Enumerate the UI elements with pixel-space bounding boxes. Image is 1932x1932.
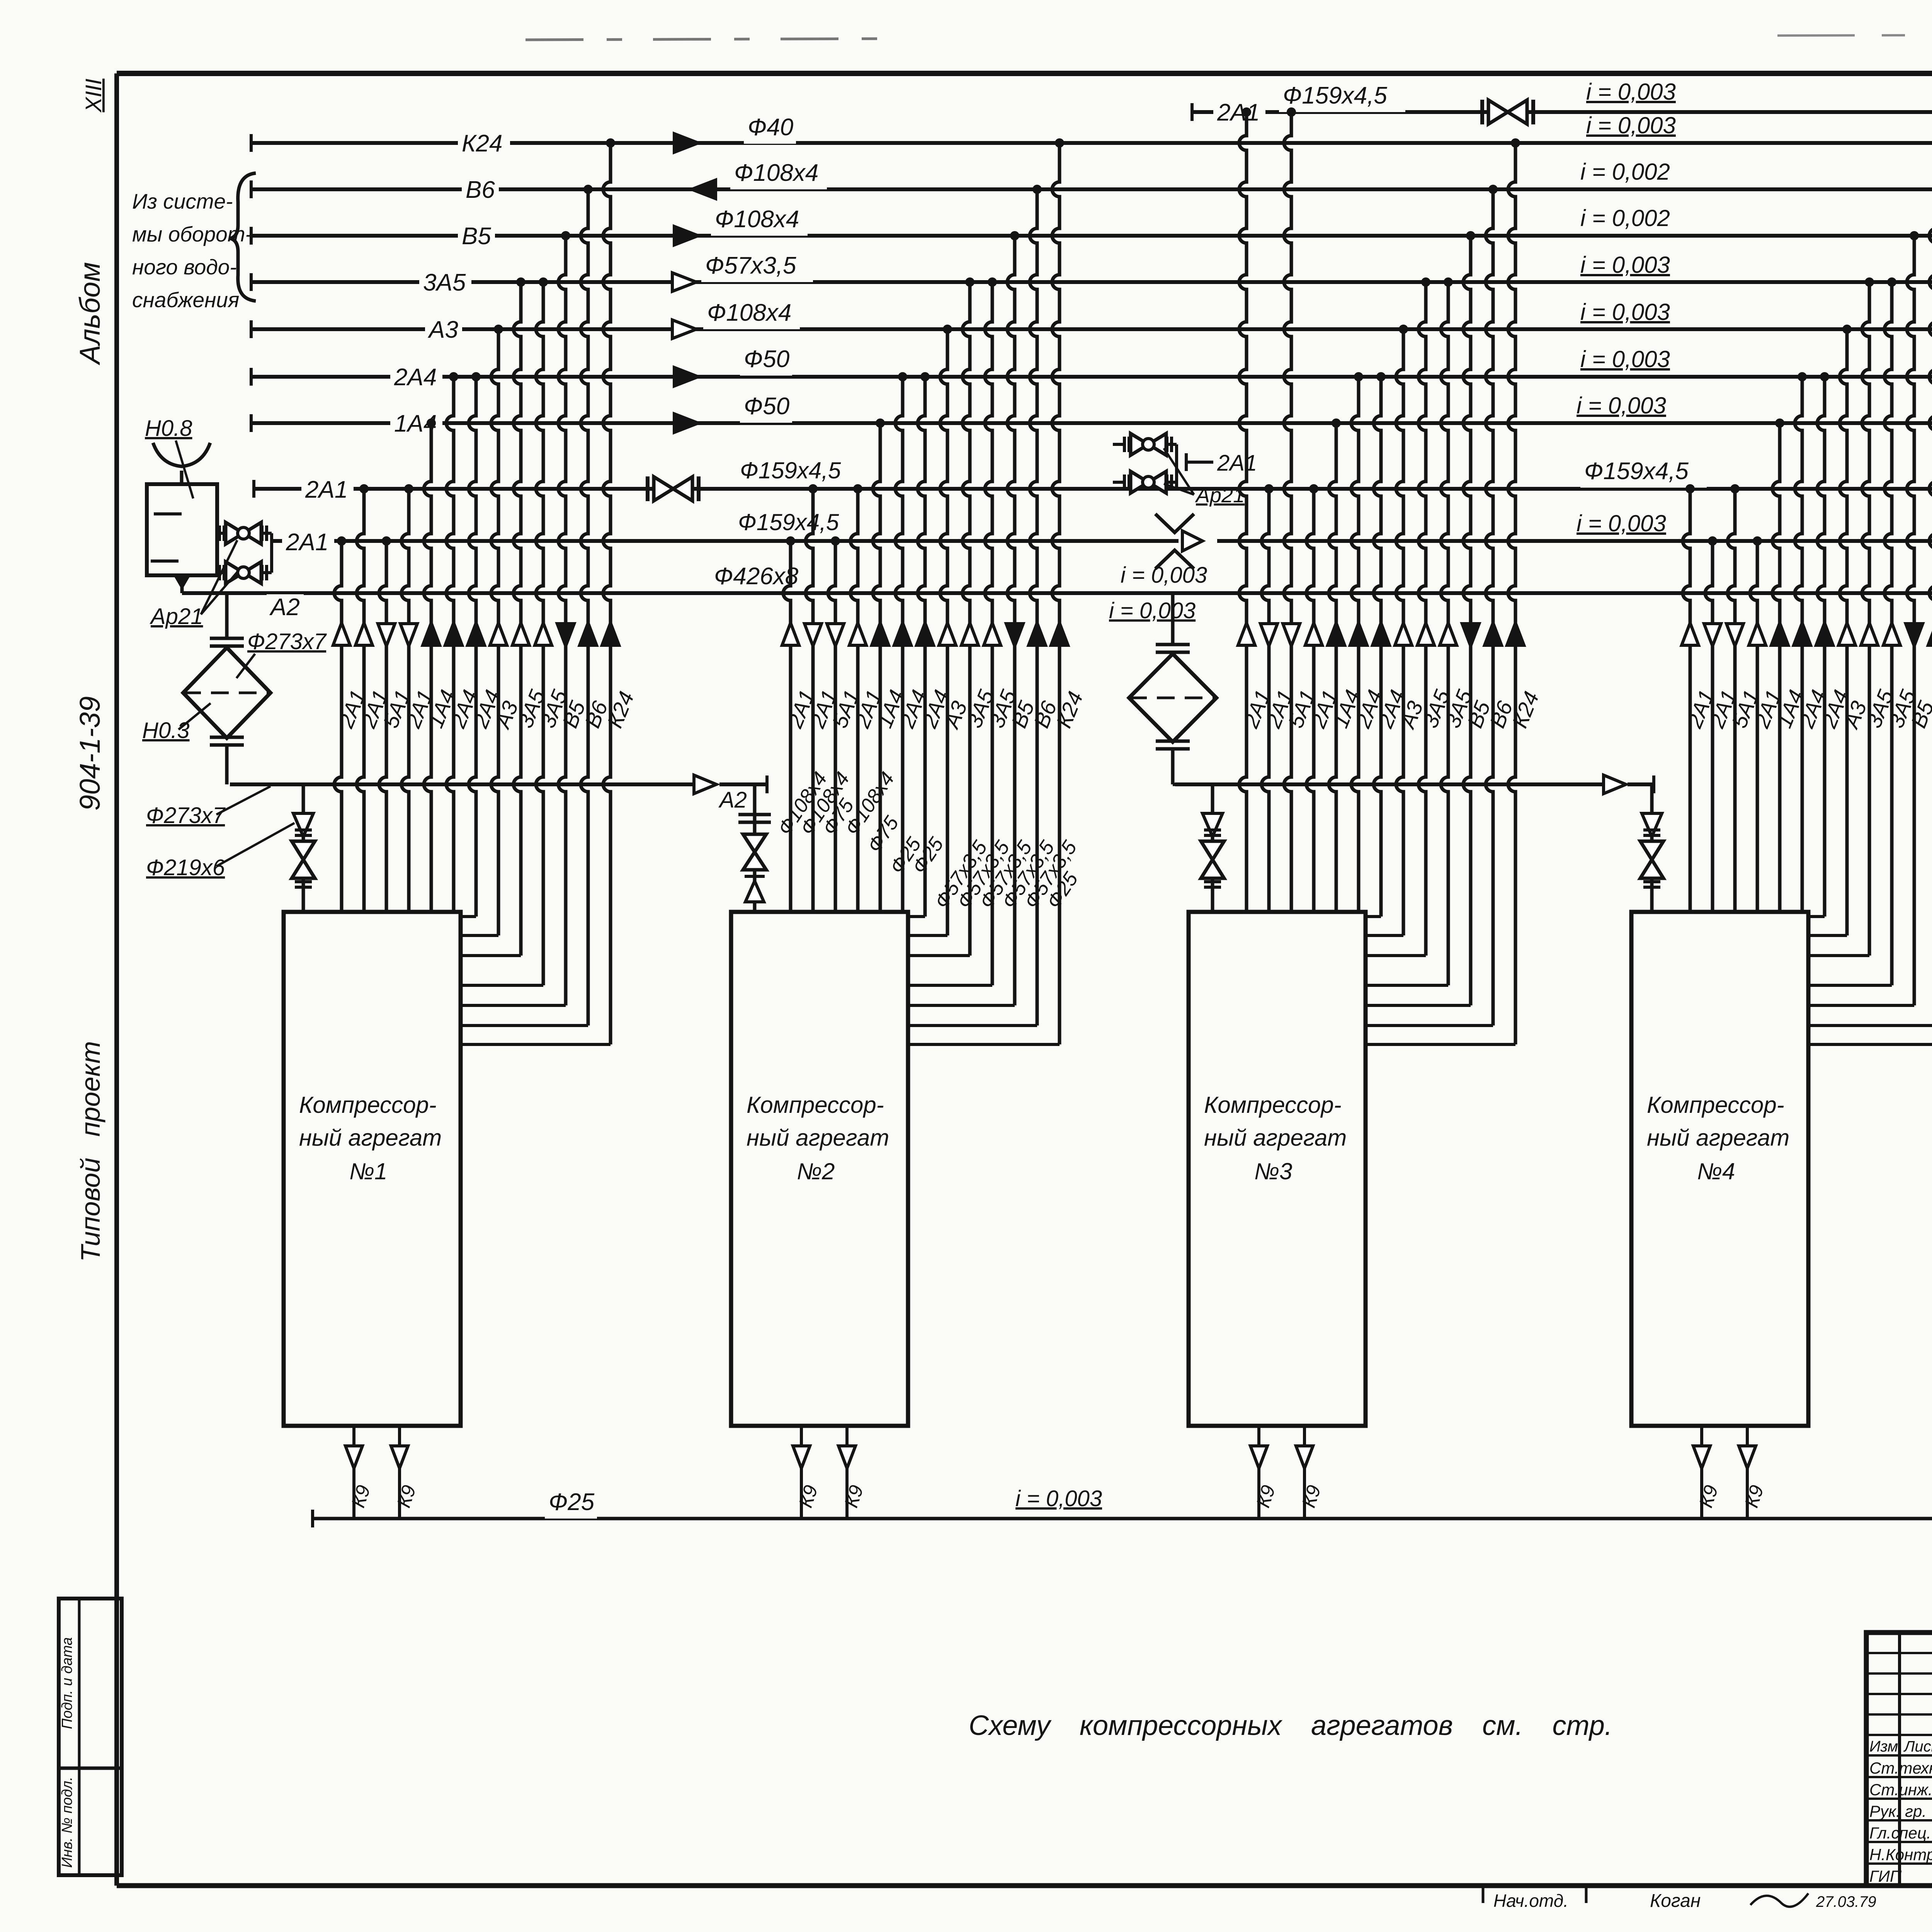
flow arrow 1А4 unit1 — [423, 623, 440, 645]
svg-text:i = 0,003: i = 0,003 — [1015, 1486, 1102, 1511]
flow arrow В6 unit3 — [1485, 623, 1502, 645]
wire В5 drop unit2 — [908, 231, 1019, 1005]
valve Ар21 unit3 upper — [1113, 434, 1172, 455]
svg-text:3А5: 3А5 — [423, 269, 466, 296]
valve Ар21 upper — [217, 522, 267, 544]
wire В6 drop unit3 — [1366, 185, 1498, 1026]
svg-text:№2: №2 — [797, 1158, 835, 1184]
wire bus V5 (Ф108х4) — [251, 227, 1932, 245]
svg-text:Подп. и дата: Подп. и дата — [59, 1637, 75, 1729]
flow arrow 3А5 unit1 — [512, 623, 529, 645]
label K24 — [458, 131, 510, 160]
flow arrow А3 unit1 — [490, 623, 507, 645]
flow arrow 5А1 unit1 — [378, 624, 395, 646]
svg-text:Ф108х4: Ф108х4 — [707, 299, 791, 326]
svg-text:А2: А2 — [718, 787, 747, 813]
svg-text:Ф50: Ф50 — [744, 346, 789, 372]
title block frame — [1866, 1633, 1932, 1886]
wire K9 drain unit4.2 — [1739, 1426, 1756, 1519]
wire 2А1 drop unit1 — [334, 536, 346, 912]
wire 1А4 drop unit1 — [424, 418, 436, 912]
svg-text:снабжения: снабжения — [132, 288, 239, 312]
flow arrow 2А4 unit1 — [468, 623, 485, 645]
svg-text:Ф159х4,5: Ф159х4,5 — [740, 457, 841, 483]
svg-text:i = 0,003: i = 0,003 — [1109, 598, 1196, 623]
flow arrow 2А1 unit4 — [1682, 623, 1699, 645]
svg-text:ГИП: ГИП — [1869, 1867, 1902, 1885]
svg-text:Инв. № подл.: Инв. № подл. — [59, 1777, 75, 1868]
svg-text:ный агрегат: ный агрегат — [299, 1125, 442, 1151]
svg-text:XIII: XIII — [81, 78, 106, 113]
svg-text:i = 0,003: i = 0,003 — [1580, 346, 1670, 372]
svg-text:Ар21: Ар21 — [1195, 484, 1245, 507]
flow arrow В5 unit3 — [1462, 624, 1479, 646]
feed pipe with valves unit1 — [292, 784, 315, 912]
margin stamp table — [59, 1599, 122, 1875]
svg-text:2А4: 2А4 — [394, 364, 437, 391]
wire 3А5 drop unit1 — [461, 277, 526, 956]
title row Ст.инж. — [1869, 1780, 1932, 1799]
label Ф108х4 r2 — [730, 160, 827, 189]
flow arrow 3А5 unit3 — [1417, 623, 1434, 645]
wire Ar21 bracket — [261, 533, 272, 573]
flow arrow 1А4 unit3 — [1328, 623, 1345, 645]
wire bus A2 — [182, 584, 1932, 602]
leader N0.8 — [176, 440, 193, 498]
wire 2А4 drop unit3 — [1351, 372, 1363, 912]
flow arrow 2А4 unit1 — [445, 623, 462, 645]
flow arrow A3 — [672, 320, 696, 338]
svg-text:Ф219х6: Ф219х6 — [146, 855, 225, 880]
svg-text:№4: №4 — [1697, 1158, 1735, 1184]
compressor unit box 3 — [1189, 912, 1366, 1426]
label Ф25 — [545, 1489, 597, 1519]
flow arrow В6 unit2 — [1029, 623, 1046, 645]
flow arrow 3А5 unit4 — [1883, 623, 1900, 645]
title row ГИП — [1869, 1867, 1932, 1886]
flow arrow 2А1 unit4 — [1704, 624, 1721, 646]
funnel N0.8 — [153, 443, 210, 466]
wire 3А5 drop unit1 — [461, 277, 548, 985]
flow arrow 2A4 — [674, 367, 698, 386]
wire manifold A2 segment 2 — [1175, 776, 1654, 793]
flow arrow 2А4 unit3 — [1350, 623, 1367, 645]
svg-text:2А1: 2А1 — [305, 476, 348, 503]
flow arrow 2А4 unit4 — [1816, 623, 1833, 645]
flow arrow 2А4 unit3 — [1372, 623, 1389, 645]
wire 3А5 drop unit3 — [1366, 277, 1430, 956]
svg-text:2А1: 2А1 — [1217, 99, 1260, 126]
label compressor unit 3 — [1204, 1092, 1347, 1184]
svg-text:Изм: Изм — [1869, 1738, 1898, 1755]
title block revision table — [1866, 1633, 1932, 1886]
wire 2А1 drop unit3 — [1262, 484, 1274, 912]
wire bus 2A4 (Ф50) — [251, 368, 1932, 386]
leader Ар21 — [201, 540, 239, 614]
label V6 — [462, 177, 499, 206]
wire 2А4 drop unit2 — [895, 372, 907, 912]
svg-text:Гл.спец.: Гл.спец. — [1869, 1824, 1931, 1842]
flow arrow V6 — [692, 180, 716, 199]
flow arrow 2А1 unit1 — [333, 623, 350, 645]
label Ф108х4 r3 — [711, 206, 808, 236]
flow arrow 2А1 unit2 — [782, 623, 799, 645]
flow arrow А3 unit3 — [1395, 623, 1412, 645]
wire 2А4 drop unit1 — [446, 372, 458, 912]
flow arrow В6 unit1 — [580, 623, 597, 645]
svg-text:i = 0,003: i = 0,003 — [1586, 79, 1676, 105]
svg-text:i = 0,003: i = 0,003 — [1577, 393, 1666, 418]
wire 2А1 drop unit2 — [783, 536, 795, 912]
wire А3 drop unit3 — [1366, 325, 1408, 935]
svg-text:Ст.инж.: Ст.инж. — [1869, 1781, 1932, 1799]
wire В5 drop unit3 — [1366, 231, 1475, 1005]
leader Ф273х7 upper — [236, 654, 255, 678]
wire bus 1A4 (Ф50) — [251, 414, 1932, 432]
label Ф57х3,5 — [701, 253, 813, 282]
wire bus 2A1 main — [254, 480, 1932, 498]
flow arrow 3А5 unit3 — [1440, 623, 1457, 645]
label A2 — [267, 594, 304, 624]
svg-text:Альбом: Альбом — [74, 262, 106, 366]
svg-text:Рук. гр.: Рук. гр. — [1869, 1802, 1927, 1820]
text from recirculating water system — [132, 189, 252, 312]
svg-text:А2: А2 — [269, 594, 300, 621]
wire Ф25 drain line — [313, 1510, 1932, 1527]
svg-text:Ф25: Ф25 — [549, 1489, 595, 1515]
labels on A2 row mid — [714, 563, 1207, 623]
wire К24 drop unit3 — [1366, 138, 1520, 1044]
valve Ар21 unit3 lower — [1113, 471, 1172, 493]
svg-text:В6: В6 — [466, 177, 495, 203]
flow arrow 2А1 unit1 — [355, 623, 372, 645]
svg-text:Ф50: Ф50 — [744, 393, 789, 420]
wire 3А5 drop unit2 — [908, 277, 997, 985]
svg-text:Ф108х4: Ф108х4 — [734, 160, 818, 186]
wire K9 drain unit3.1 — [1250, 1426, 1267, 1519]
leader N0.3 — [179, 703, 211, 730]
wire 5А1 drop unit2 — [828, 536, 840, 912]
wire bus V6 (Ф108х4) — [251, 180, 1932, 198]
feed pipe with valves unit4 — [1640, 784, 1663, 912]
wire В5 drop unit1 — [461, 231, 570, 1005]
wire 2А1 drop unit2 — [850, 484, 862, 912]
flow arrow А3 unit2 — [939, 623, 956, 645]
flow arrow 2А1 unit4 — [1749, 623, 1766, 645]
flow arrow 3А5 unit1 — [535, 623, 552, 645]
wire 2А1 drop unit2 — [806, 484, 818, 912]
wire В6 drop unit1 — [461, 185, 593, 1026]
svg-text:Компрессор-: Компрессор- — [1647, 1092, 1784, 1118]
label Ф40 — [744, 114, 796, 144]
wire А3 drop unit2 — [908, 325, 952, 935]
wire 2А1 drop unit3 — [1306, 484, 1318, 912]
flow arrow 5А1 unit4 — [1726, 624, 1743, 646]
flow arrow K24 — [674, 134, 698, 152]
flow arrow 3А5 unit2 — [984, 623, 1001, 645]
svg-text:ный агрегат: ный агрегат — [1647, 1125, 1789, 1151]
title row Рук. гр. — [1869, 1802, 1932, 1821]
flow arrow К24 unit1 — [602, 623, 619, 645]
label 2A1 unit3 — [1186, 451, 1257, 476]
svg-text:2А1: 2А1 — [286, 529, 328, 556]
svg-text:Ф40: Ф40 — [748, 114, 793, 141]
label 2A1 second — [282, 529, 334, 559]
wire 2A1 top right (Ф159х4,5) — [1192, 103, 1932, 121]
wire 3А5 drop unit4 — [1808, 277, 1874, 956]
svg-text:Коган: Коган — [1650, 1891, 1701, 1911]
wire 1А4 drop unit3 — [1329, 418, 1341, 912]
wire bus A3 (Ф108х4) — [251, 320, 1932, 338]
svg-text:i = 0,003: i = 0,003 — [1577, 510, 1666, 536]
check valve on 2A1 bus — [648, 476, 699, 501]
wire bus K24 (Ф40) — [251, 134, 1932, 152]
wire K9 drain unit1.2 — [391, 1426, 408, 1519]
svg-text:Ф273х7: Ф273х7 — [247, 629, 327, 654]
label 2A1 main — [301, 477, 354, 506]
svg-text:Нач.отд.: Нач.отд. — [1493, 1891, 1568, 1911]
svg-text:№3: №3 — [1254, 1158, 1292, 1184]
flow arrow 2А1 unit2 — [849, 623, 866, 645]
wire 2А1 drop unit4 — [1683, 484, 1695, 912]
flow arrow 2А4 unit2 — [894, 623, 911, 645]
wire K9 drain unit3.2 — [1296, 1426, 1313, 1519]
wire 1А4 drop unit2 — [873, 418, 885, 912]
compressor unit box 1 — [284, 912, 461, 1426]
svg-text:Ф159х4,5: Ф159х4,5 — [1283, 82, 1387, 109]
svg-text:i = 0,002: i = 0,002 — [1580, 205, 1670, 231]
arrow A2 manifold 1 — [694, 775, 716, 794]
label compressor unit 2 — [747, 1092, 889, 1184]
wire 5А1 drop unit3 — [1284, 107, 1296, 912]
wire K9 drain unit2.2 — [838, 1426, 855, 1519]
svg-text:Ф159х4,5: Ф159х4,5 — [1584, 458, 1689, 485]
flow arrow 2А1 unit3 — [1305, 623, 1322, 645]
flow arrow 2А4 unit2 — [917, 623, 934, 645]
flow arrow 5А1 unit3 — [1283, 624, 1300, 646]
wire В5 drop unit4 — [1808, 231, 1919, 1005]
label Ф50 r7 — [740, 393, 792, 423]
wire bus 3A5 (Ф57х3,5) — [251, 273, 1932, 291]
flow arrow 3А5 unit4 — [1861, 623, 1878, 645]
valve Ар21 lower — [217, 562, 267, 583]
wire 2А4 drop unit2 — [908, 372, 930, 917]
flow arrow 2А4 unit4 — [1794, 623, 1811, 645]
wire 2А4 drop unit4 — [1795, 372, 1807, 912]
wire 2А4 drop unit3 — [1366, 372, 1386, 917]
svg-text:Компрессор-: Компрессор- — [747, 1092, 884, 1118]
flow arrow В5 unit4 — [1906, 624, 1923, 646]
heat exchanger N0.3 — [183, 593, 270, 784]
label 2A4 — [390, 364, 442, 394]
approval row bottom — [1483, 1885, 1876, 1911]
svg-text:ного водо-: ного водо- — [132, 255, 237, 279]
flow arrow 3A5 — [672, 273, 696, 291]
svg-text:Ст.техн: Ст.техн — [1869, 1759, 1932, 1777]
slope labels column — [1577, 79, 1932, 536]
wire 2А1 drop unit4 — [1750, 536, 1762, 912]
wire А3 drop unit4 — [1808, 325, 1852, 935]
wire 2А1 drop unit1 — [357, 484, 369, 912]
wire В6 drop unit2 — [908, 185, 1042, 1026]
svg-text:А3: А3 — [427, 316, 458, 343]
wire K9 drain unit2.1 — [793, 1426, 810, 1519]
flow arrow К24 unit3 — [1507, 623, 1524, 645]
flow arrow В5 unit1 — [557, 624, 574, 646]
svg-text:Из систе-: Из систе- — [132, 189, 233, 213]
svg-text:Компрессор-: Компрессор- — [1204, 1092, 1342, 1118]
svg-text:2А1: 2А1 — [1217, 451, 1257, 476]
wire Ar21 unit3 bracket — [1166, 444, 1177, 489]
svg-text:i = 0,002: i = 0,002 — [1580, 159, 1670, 185]
svg-text:Н0.3: Н0.3 — [142, 718, 190, 743]
svg-text:Ф108х4: Ф108х4 — [715, 206, 799, 233]
flow arrow 1A4 — [674, 414, 698, 432]
wire 2А1 drop unit4 — [1705, 536, 1717, 912]
flow arrow 2А1 unit1 — [400, 624, 417, 646]
wire 5А1 drop unit4 — [1728, 484, 1740, 912]
svg-text:К24: К24 — [462, 130, 503, 157]
label Ф50 r6 — [740, 346, 792, 376]
wire K9 drain unit4.1 — [1693, 1426, 1710, 1519]
leader Ар21 unit3 — [1164, 448, 1194, 495]
flow arrow К24 unit2 — [1051, 623, 1068, 645]
flow arrow V5 — [674, 226, 698, 245]
label 2A1 top — [1213, 100, 1265, 129]
label V5 — [458, 223, 495, 253]
wire 2А1 drop unit3 — [1239, 107, 1251, 912]
wire 3А5 drop unit4 — [1808, 277, 1896, 985]
feed pipe with valves unit2 — [738, 784, 771, 912]
feed pipe with valves unit3 — [1201, 784, 1224, 912]
tank N0.8 — [147, 484, 217, 575]
label Ф159х4,5 top — [1279, 83, 1405, 112]
wire 5А1 drop unit1 — [379, 536, 391, 912]
flow arrow 2А1 unit3 — [1260, 624, 1277, 646]
wire К24 drop unit4 — [1808, 138, 1932, 1044]
flow arrow 2А1 unit2 — [804, 624, 821, 646]
flow arrow 1А4 unit4 — [1771, 623, 1788, 645]
wire К24 drop unit1 — [461, 138, 615, 1044]
svg-text:№1: №1 — [349, 1158, 387, 1184]
title row Гл.спец. — [1869, 1823, 1932, 1842]
flow arrow 2А1 unit3 — [1238, 623, 1255, 645]
svg-text:В5: В5 — [462, 223, 491, 250]
svg-text:i = 0,003: i = 0,003 — [1586, 112, 1676, 138]
label A3 — [425, 317, 462, 346]
revision table headers — [1869, 1737, 1932, 1755]
title row Ст.техн — [1869, 1759, 1932, 1777]
svg-text:Ф273х7: Ф273х7 — [146, 803, 226, 828]
tank outlet — [173, 575, 190, 590]
wire 2А1 drop unit1 — [401, 484, 413, 912]
wire bus 2A1 second — [272, 539, 1932, 543]
label 1A4 — [390, 411, 442, 440]
wire А3 drop unit1 — [461, 325, 503, 935]
svg-text:ный агрегат: ный агрегат — [1204, 1125, 1347, 1151]
compressor unit box 4 — [1631, 912, 1808, 1426]
svg-text:Ар21: Ар21 — [150, 604, 203, 629]
flow arrow 5А1 unit2 — [827, 624, 844, 646]
svg-text:Ф57х3,5: Ф57х3,5 — [705, 252, 796, 279]
wire 3А5 drop unit3 — [1366, 277, 1453, 985]
svg-text:Н0.8: Н0.8 — [145, 416, 192, 441]
svg-text:i = 0,003: i = 0,003 — [1121, 563, 1207, 588]
compressor unit box 2 — [731, 912, 908, 1426]
svg-text:i = 0,003: i = 0,003 — [1580, 299, 1670, 325]
flow arrow В5 unit2 — [1006, 624, 1023, 646]
leader Ф273х7 lower — [216, 786, 270, 815]
wire В6 drop unit4 — [1808, 185, 1932, 1026]
label Ф159х4,5 mid r8 — [1580, 458, 1707, 488]
wire K9 drain unit1.1 — [345, 1426, 362, 1519]
label Ф108х4 r5 — [703, 300, 800, 329]
flow arrow 3А5 unit2 — [961, 623, 978, 645]
arrow A2 manifold 2 — [1604, 775, 1626, 794]
svg-text:Н.Контр.: Н.Контр. — [1869, 1845, 1932, 1864]
flow arrow В6 unit4 — [1928, 623, 1932, 645]
leader Ф219х6 — [216, 823, 294, 866]
title row Н.Контр. — [1869, 1845, 1932, 1864]
brace — [230, 173, 256, 301]
arrow and crossing mark on 2A1 second — [1155, 514, 1202, 569]
svg-text:Ф159х4,5: Ф159х4,5 — [738, 509, 839, 535]
wire 1А4 drop unit4 — [1772, 418, 1784, 912]
svg-text:27.03.79: 27.03.79 — [1816, 1893, 1876, 1910]
flow arrow А3 unit4 — [1838, 623, 1855, 645]
flow arrow 1А4 unit2 — [872, 623, 889, 645]
svg-text:Типовой проект: Типовой проект — [75, 1041, 105, 1262]
svg-text:i = 0,003: i = 0,003 — [1580, 252, 1670, 278]
svg-text:904-1-39: 904-1-39 — [74, 696, 106, 811]
wire 2А4 drop unit4 — [1808, 372, 1829, 917]
svg-text:ный агрегат: ный агрегат — [747, 1125, 889, 1151]
label 3A5 — [419, 270, 471, 299]
wire 2А4 drop unit1 — [461, 372, 481, 917]
check valve on top 2A1 — [1482, 100, 1533, 124]
svg-text:Схему компрессорных агрега: Схему компрессорных агрегатов см. стр. — [969, 1710, 1612, 1741]
wire manifold A2 segment 1 — [230, 776, 768, 793]
label compressor unit 4 — [1647, 1092, 1789, 1184]
heat exchanger unit3 — [1129, 593, 1216, 784]
wire 3А5 drop unit2 — [908, 277, 975, 956]
svg-text:Лист: Лист — [1903, 1738, 1932, 1755]
top scan marks — [526, 34, 1932, 40]
label compressor unit 1 — [299, 1092, 442, 1184]
wire К24 drop unit2 — [908, 138, 1064, 1044]
svg-text:Компрессор-: Компрессор- — [299, 1092, 437, 1118]
